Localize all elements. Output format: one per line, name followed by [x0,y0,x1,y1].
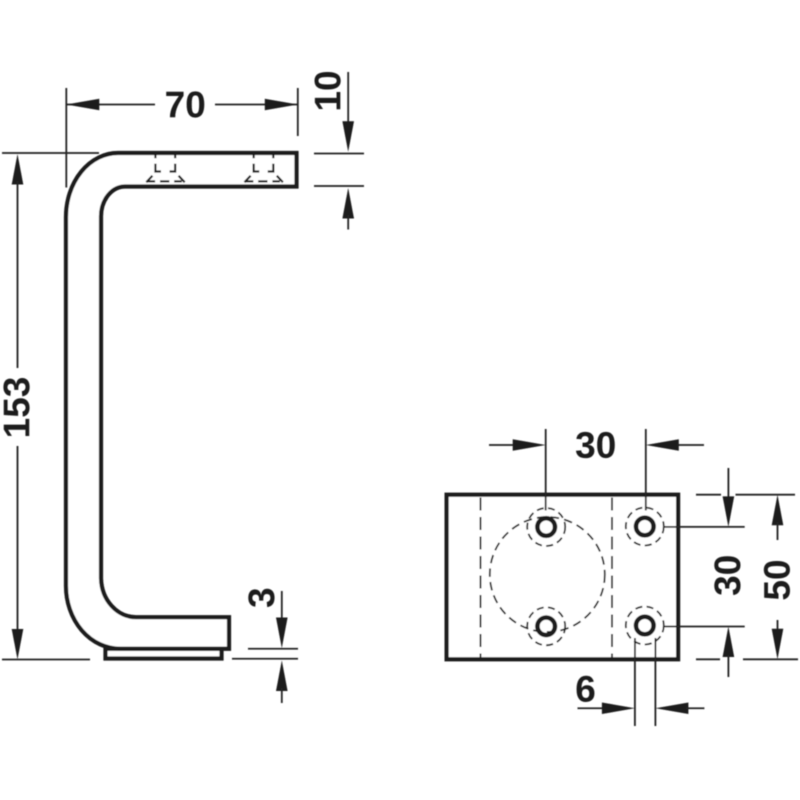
bracket body outline (side view) [66,153,297,649]
hole bottom-right (6mm bore + dashed countersink) [626,607,664,645]
hole bottom-left (6mm bore + dashed countersink) [527,607,565,645]
screw hole symbol 1 (dashed) [146,155,184,182]
dimension 10 [314,72,364,230]
large dashed circle [490,517,605,632]
dimension 70 [2,88,298,188]
pad (3mm glide under foot) [106,649,222,659]
dimension 3 [232,589,298,703]
dimension 50 (right, vertical) [696,495,798,660]
dimension 6 (bottom) [577,638,705,726]
dimension 30 (right, vertical) [664,468,745,677]
dashed bend line left (hidden edge) [480,498,482,658]
dimension 30 (top, horizontal) [489,429,704,511]
dimension 153 [2,154,90,660]
top view plate [447,495,678,660]
screw hole symbol 2 (dashed) [245,155,283,182]
dashed bend line right (hidden edge) [611,498,613,658]
hole top-left (6mm bore + dashed countersink) [527,508,565,546]
hole top-right (6mm bore + dashed countersink) [626,508,664,546]
